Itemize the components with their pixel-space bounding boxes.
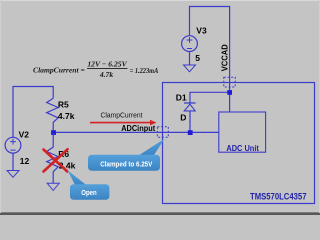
svg-text:ADCinput: ADCinput xyxy=(121,123,155,133)
node D junction xyxy=(188,130,193,135)
svg-text:VCCAD: VCCAD xyxy=(220,44,230,71)
svg-text:TMS570LC4357: TMS570LC4357 xyxy=(250,191,307,201)
resistor R5 xyxy=(47,98,58,130)
wire junction to diode cathode xyxy=(190,92,230,102)
wire junction to ADC Unit xyxy=(229,92,231,113)
voltage source V2 xyxy=(5,137,21,153)
svg-text:Clamped to 6.25V: Clamped to 6.25V xyxy=(100,159,152,168)
open marker (red X over R6) xyxy=(44,149,68,171)
svg-text:= 1.223mA: = 1.223mA xyxy=(130,66,159,75)
svg-text:V2: V2 xyxy=(19,129,30,139)
svg-text:4.7k: 4.7k xyxy=(58,111,75,121)
callout Clamped to 6.25V xyxy=(88,139,165,171)
svg-text:4.7k: 4.7k xyxy=(99,70,113,79)
voltage source V3 xyxy=(182,36,198,52)
diode D1 xyxy=(184,103,196,131)
equation ClampCurrent formula xyxy=(33,60,158,80)
current arrow (red) xyxy=(90,120,157,126)
ground (R6) xyxy=(47,183,59,190)
ground (V3) xyxy=(184,65,196,72)
svg-text:12V − 6.25V: 12V − 6.25V xyxy=(87,60,127,69)
svg-text:V3: V3 xyxy=(196,25,207,35)
svg-text:12: 12 xyxy=(20,156,30,166)
pin (VCCAD entry, dashed) xyxy=(224,77,235,87)
wire V2 top loop to R5 xyxy=(13,87,53,138)
svg-text:D: D xyxy=(180,112,186,122)
resistor R6 xyxy=(47,133,58,183)
svg-text:5: 5 xyxy=(195,53,200,63)
svg-text:ADC Unit: ADC Unit xyxy=(226,144,259,153)
svg-text:ClampCurrent =: ClampCurrent = xyxy=(33,66,85,75)
ADC Unit block xyxy=(219,112,266,152)
node R5/R6 junction xyxy=(51,130,56,135)
svg-text:ClampCurrent: ClampCurrent xyxy=(101,110,143,119)
svg-text:Open: Open xyxy=(81,188,97,197)
wire V2 to ground xyxy=(12,153,14,170)
wire V3 to ground xyxy=(189,52,191,66)
wire V3 top loop to VCCAD xyxy=(190,7,230,91)
ground (V2) xyxy=(7,171,19,178)
svg-text:R5: R5 xyxy=(58,99,69,109)
svg-text:D1: D1 xyxy=(176,92,187,102)
node VCCAD junction xyxy=(227,90,232,95)
wire ADCinput net xyxy=(53,131,219,133)
callout Open xyxy=(68,170,110,200)
IC boundary box TMS570LC4357 xyxy=(163,83,315,204)
pin (ADCinput entry, dashed) xyxy=(157,127,168,138)
